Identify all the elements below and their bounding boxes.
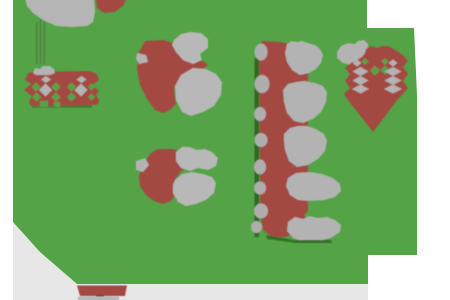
IC U2 left pin 2 bbox=[255, 75, 270, 93]
capacitor C1 upper solder blob bbox=[172, 32, 208, 64]
component body top red bbox=[96, 0, 127, 13]
IC U1 soldermask notches bbox=[32, 83, 96, 108]
IC U2 left pin 1 bbox=[255, 44, 268, 61]
IC U2 solder pad B5 bbox=[287, 216, 341, 242]
IC U2 left pin 6 bbox=[254, 182, 266, 195]
IC U2 solder pad B2 bbox=[283, 81, 327, 123]
IC U2 left pin 7 bbox=[254, 204, 268, 219]
IC U2 left pin 8 bbox=[251, 221, 262, 233]
capacitor C2 body bbox=[139, 149, 191, 204]
connector tab dark notch bbox=[96, 295, 104, 298]
IC U2 solder pad B4 bbox=[286, 172, 341, 201]
IC U3 body bbox=[344, 46, 408, 132]
capacitor C2 lower solder blob bbox=[173, 172, 216, 206]
capacitor C1 lower solder blob bbox=[175, 68, 222, 116]
IC U2 solder pad B1 bbox=[285, 41, 323, 75]
IC U3 pins (solder) bbox=[352, 60, 402, 94]
IC U2 shadow strip bbox=[255, 58, 260, 237]
capacitor C2 left solder notch bbox=[136, 158, 149, 172]
solder blob top-left bbox=[25, 0, 95, 27]
IC U2 left pin 5 bbox=[254, 160, 266, 175]
connector tab shadow bbox=[78, 297, 119, 300]
capacitor C1 body bbox=[137, 40, 208, 113]
component legs (dark wires) left bbox=[36, 19, 45, 64]
IC U1 pins (solder) bbox=[39, 76, 88, 97]
IC U3 soldermask notches bbox=[362, 58, 390, 76]
table shadow region (bottom-left triangle + bottom strip) bbox=[13, 222, 368, 300]
IC U1 body bbox=[24, 71, 99, 106]
capacitor C2 upper solder blob bbox=[176, 147, 218, 171]
IC U2 body (red strip) bbox=[259, 41, 308, 237]
IC U1 copper diamond bbox=[27, 87, 36, 96]
capacitor C1 left solder notch bbox=[136, 53, 148, 64]
IC U2 left pin 4 bbox=[255, 133, 268, 147]
IC U2 dark shadow under bottom bbox=[266, 235, 332, 243]
IC U3 solder blob top-left bbox=[337, 40, 368, 65]
IC U2 left pin 3 bbox=[254, 107, 266, 121]
connector tab (bottom) bbox=[77, 286, 127, 297]
IC U2 solder pad B3 bbox=[284, 126, 327, 167]
IC U1 top solder blob bbox=[33, 66, 55, 75]
IC U1 shadow under body bbox=[32, 105, 92, 108]
